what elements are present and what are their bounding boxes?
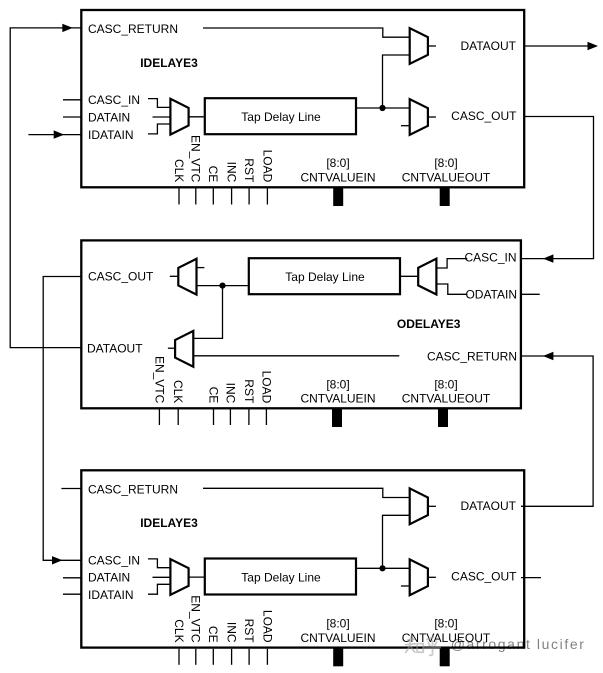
wire control stub 1 (U3) (178, 649, 180, 665)
arrowhead into U1 CASC_RETURN (62, 24, 73, 32)
wire CASC_OUT mux output stub (U1) (428, 116, 436, 118)
wire junction down to DATAOUT mux top input (U2) (193, 286, 222, 339)
wire input mux to tap delay line (U2) (400, 275, 418, 277)
svg-text:DATAOUT: DATAOUT (460, 39, 516, 53)
svg-text:DATAIN: DATAIN (88, 110, 130, 124)
svg-text:[8:0]: [8:0] (326, 616, 349, 630)
mux CASC_OUT (U3) (410, 559, 428, 595)
box Tap Delay Line (U2) (249, 258, 400, 294)
wire DATAOUT mux output stub (U1) (428, 45, 436, 47)
svg-text:CASC_OUT: CASC_OUT (451, 569, 517, 583)
arrowhead into U2 CASC_IN (543, 254, 554, 262)
wire U3 CASC_OUT stub (521, 577, 541, 579)
svg-text:Tap Delay Line: Tap Delay Line (285, 270, 365, 284)
svg-text:ODELAYE3: ODELAYE3 (397, 317, 461, 331)
wire U1 CASC_OUT to U2 CASC_IN (521, 117, 594, 259)
wire delay line out to CASC_OUT mux (U2) (197, 285, 249, 287)
wire input mux to tap delay line (U3) (189, 576, 205, 578)
arrowhead U1 DATAOUT output (588, 42, 599, 50)
svg-text:CASC_RETURN: CASC_RETURN (88, 482, 178, 496)
wire control stub 5 (U2) (248, 409, 250, 425)
wire control stub 6 (U1) (266, 189, 268, 205)
svg-text:EN_VTC: EN_VTC (152, 356, 166, 404)
junction dot (U2) (219, 283, 225, 289)
mux CASC_OUT (U2) (178, 259, 196, 295)
wire CASC_RETURN to DATAOUT mux (U3) (203, 488, 410, 497)
svg-text:@arrogant lucifer: @arrogant lucifer (451, 636, 586, 652)
wire control stub 4 (U1) (231, 189, 233, 205)
wire junction up to DATAOUT mux bottom input (U3) (383, 515, 410, 568)
wire control stub 5 (U3) (248, 649, 250, 665)
wire DATAOUT mux output stub (U3) (428, 505, 436, 507)
bus bar CNTVALUEOUT (U3) (440, 648, 450, 666)
block U2 ODELAYE3 rectangle (81, 240, 521, 408)
bus bar CNTVALUEOUT (U2) (438, 409, 448, 427)
svg-text:CNTVALUEIN: CNTVALUEIN (300, 391, 375, 405)
svg-text:[8:0]: [8:0] (326, 156, 349, 170)
wire control stub 5 (U1) (248, 189, 250, 205)
svg-text:DATAOUT: DATAOUT (87, 342, 143, 356)
wire CASC_OUT mux lower stub (U1) (401, 125, 410, 127)
svg-text:EN_VTC: EN_VTC (189, 135, 203, 183)
block U1 IDELAYE3 rectangle (81, 10, 524, 187)
wire CASC_IN hook (U2) (436, 259, 467, 268)
bus bar CNTVALUEOUT (U1) (440, 188, 450, 206)
svg-text:CLK: CLK (172, 619, 186, 642)
wire U1 CASC_IN stub (63, 99, 81, 101)
wire CASC_IN hook (U3) (148, 559, 170, 568)
svg-text:CASC_OUT: CASC_OUT (451, 109, 517, 123)
wire U3 IDATAIN stub (63, 593, 81, 595)
wire U1 IDATAIN input (28, 134, 81, 136)
watermark glyph 乎 (drawn strokes) (424, 637, 440, 655)
mux input select (U3) (170, 559, 188, 595)
wire CASC_OUT mux output stub (U3) (428, 576, 436, 578)
mux DATAOUT (U1) (410, 28, 428, 64)
wire U1 DATAOUT output (525, 45, 596, 47)
svg-text:CE: CE (206, 626, 220, 643)
wire CASC_IN hook (U1) (148, 99, 170, 108)
wire CASC_RETURN to DATAOUT mux (U2) (193, 355, 399, 357)
wire ODATAIN hook (U2) (436, 284, 467, 294)
block U3 IDELAYE3 rectangle (81, 470, 524, 647)
wire control stub 2 (U1) (195, 189, 197, 205)
wire delay line out to CASC_OUT mux (U1) (356, 107, 410, 109)
wire DATAOUT mux output stub (U2) (168, 347, 175, 349)
svg-text:DATAIN: DATAIN (88, 571, 130, 585)
svg-text:[8:0]: [8:0] (434, 378, 457, 392)
svg-text:Tap Delay Line: Tap Delay Line (241, 570, 321, 584)
wire IDATAIN hook (U1) (148, 124, 170, 134)
wire control stub 3 (U2) (213, 409, 215, 425)
svg-text:CE: CE (206, 387, 220, 404)
junction dot (U1) (379, 105, 385, 111)
wire control stub 6 (U3) (266, 649, 268, 665)
svg-text:LOAD: LOAD (260, 150, 274, 183)
mux DATAOUT (U3) (410, 488, 428, 524)
svg-text:INC: INC (225, 622, 239, 643)
wire control stub 3 (U1) (212, 189, 214, 205)
wire control stub 1 (U1) (178, 189, 180, 205)
junction dot (U3) (379, 565, 385, 571)
svg-text:IDATAIN: IDATAIN (88, 588, 134, 602)
svg-text:LOAD: LOAD (260, 610, 274, 643)
svg-text:CNTVALUEIN: CNTVALUEIN (300, 171, 375, 185)
svg-text:EN_VTC: EN_VTC (189, 595, 203, 643)
svg-text:[8:0]: [8:0] (434, 156, 457, 170)
svg-text:LOAD: LOAD (259, 371, 273, 404)
svg-text:CE: CE (206, 166, 220, 183)
wire U2 DATAOUT to U1 CASC_RETURN loop (10, 28, 81, 348)
arrowhead into U3 CASC_IN (52, 556, 63, 564)
svg-text:CNTVALUEOUT: CNTVALUEOUT (402, 171, 491, 185)
wire U3 DATAOUT to U2 CASC_RETURN (521, 356, 593, 506)
wire U1 DATAIN stub (63, 116, 81, 118)
wire CASC_OUT mux upper stub (U2) (197, 267, 205, 269)
wire U2 ODATAIN stub (521, 293, 540, 295)
arrowhead into U1 IDATAIN (54, 130, 64, 138)
svg-text:CASC_RETURN: CASC_RETURN (427, 349, 517, 363)
svg-text:CLK: CLK (171, 380, 185, 403)
svg-text:CASC_IN: CASC_IN (88, 553, 140, 567)
wire control stub 3 (U3) (212, 649, 214, 665)
watermark glyph 知 (drawn strokes) (406, 637, 441, 655)
box Tap Delay Line (U3) (205, 559, 356, 595)
svg-text:IDATAIN: IDATAIN (88, 128, 134, 142)
mux CASC_OUT (U1) (410, 99, 428, 135)
svg-text:CLK: CLK (172, 159, 186, 182)
svg-text:CASC_RETURN: CASC_RETURN (88, 22, 178, 36)
wire CASC_OUT mux output stub (U2) (170, 275, 179, 277)
svg-text:CASC_IN: CASC_IN (88, 93, 140, 107)
svg-text:CASC_OUT: CASC_OUT (88, 270, 154, 284)
svg-text:Tap Delay Line: Tap Delay Line (241, 110, 321, 124)
svg-text:CNTVALUEIN: CNTVALUEIN (300, 631, 375, 645)
wire CASC_RETURN to DATAOUT mux (U1) (203, 28, 410, 37)
bus bar CNTVALUEIN (U2) (332, 409, 342, 427)
bus bar CNTVALUEIN (U3) (333, 648, 343, 666)
wire input mux to tap delay line (U1) (189, 116, 205, 118)
svg-text:[8:0]: [8:0] (434, 616, 457, 630)
wire U2 CASC_OUT to U3 CASC_IN loop (43, 277, 81, 561)
bus bar CNTVALUEIN (U1) (333, 188, 343, 206)
svg-text:INC: INC (225, 162, 239, 183)
svg-text:ODATAIN: ODATAIN (465, 288, 517, 302)
wire U3 DATAIN stub (63, 577, 81, 579)
svg-text:RST: RST (242, 619, 256, 644)
mux input select (U2) (418, 259, 436, 295)
wire control stub 2 (U3) (195, 649, 197, 665)
box Tap Delay Line (U1) (205, 98, 356, 134)
wire CASC_OUT mux lower stub (U3) (401, 585, 410, 587)
wire junction up to DATAOUT mux bottom input (U1) (383, 55, 410, 108)
wire control stub 6 (U2) (265, 409, 267, 425)
wire DATAIN input (U1) (153, 116, 171, 118)
wire control stub 4 (U3) (231, 649, 233, 665)
svg-text:DATAOUT: DATAOUT (460, 499, 516, 513)
svg-text:IDELAYE3: IDELAYE3 (140, 516, 198, 530)
svg-text:CNTVALUEOUT: CNTVALUEOUT (402, 391, 491, 405)
wire IDATAIN hook (U3) (148, 584, 170, 594)
svg-text:IDELAYE3: IDELAYE3 (140, 56, 198, 70)
wire U3 CASC_RETURN stub (61, 488, 81, 490)
mux input select (U1) (170, 99, 188, 135)
svg-text:RST: RST (242, 379, 256, 404)
wire control stub 4 (U2) (229, 409, 231, 425)
svg-text:CASC_IN: CASC_IN (464, 250, 516, 264)
wire control stub 1 (U2) (158, 409, 160, 425)
svg-text:INC: INC (223, 383, 237, 404)
arrowhead into U2 CASC_RETURN (543, 352, 554, 360)
wire delay line out to CASC_OUT mux (U3) (356, 567, 410, 569)
svg-text:RST: RST (242, 158, 256, 183)
svg-text:[8:0]: [8:0] (326, 378, 349, 392)
mux DATAOUT (U2) (175, 331, 193, 367)
wire control stub 2 (U2) (177, 409, 179, 425)
wire DATAIN input (U3) (153, 576, 171, 578)
